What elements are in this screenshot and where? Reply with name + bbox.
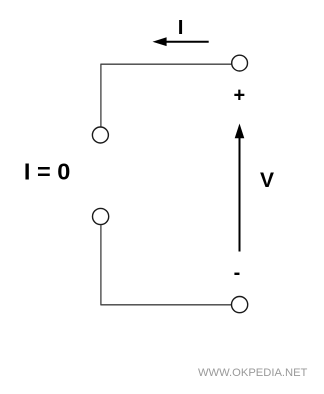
terminal: top-right + terminal — [232, 55, 248, 71]
terminal: lower-left open terminal — [93, 208, 109, 224]
svg-text:+: + — [234, 84, 246, 106]
svg-text:-: - — [234, 262, 241, 284]
wire: top horizontal segment (upper-left corner to + terminal) — [101, 63, 232, 65]
voltage arrow V (pointing up) — [235, 124, 245, 252]
svg-text:WWW.OKPEDIA.NET: WWW.OKPEDIA.NET — [198, 367, 308, 379]
wire: lower-left vertical segment — [100, 225, 102, 306]
svg-text:I: I — [178, 16, 184, 39]
wire: bottom horizontal segment (lower-left corner to - terminal) — [101, 304, 232, 306]
terminal: upper-left open terminal — [92, 127, 108, 143]
terminal: bottom-right - terminal — [232, 297, 248, 313]
current arrow I (pointing left) — [153, 37, 209, 46]
svg-text:V: V — [260, 169, 274, 192]
wire: upper-left vertical segment — [100, 64, 102, 127]
svg-text:I = 0: I = 0 — [24, 158, 70, 184]
